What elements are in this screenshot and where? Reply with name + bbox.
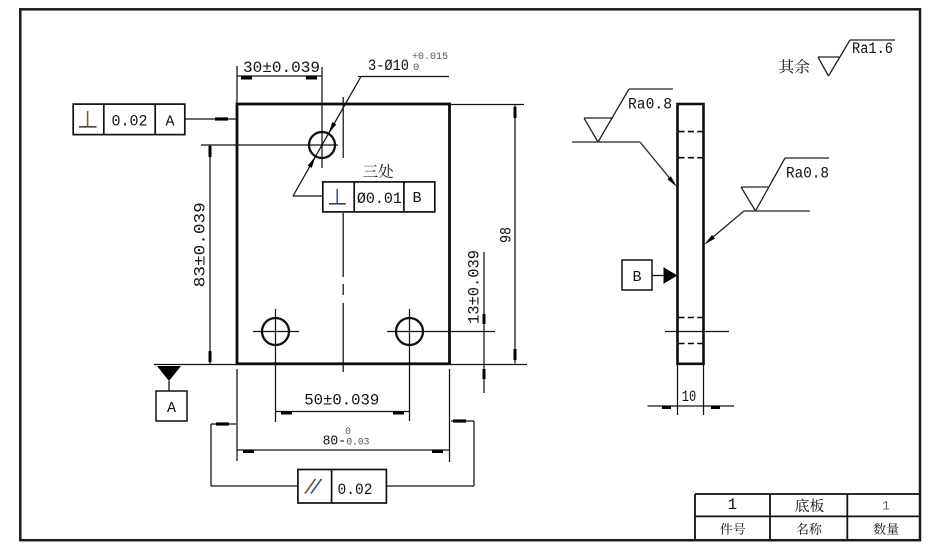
dimension 13±0.039 bbox=[483, 252, 485, 393]
svg-text:Ra0.8: Ra0.8 bbox=[628, 96, 672, 114]
bottom-left hole vertical centerline / 50-dim extension bbox=[275, 309, 277, 422]
text 其余 bbox=[779, 59, 809, 74]
parallelism leader left bbox=[211, 485, 298, 487]
front view plate outline bbox=[237, 104, 450, 364]
table cell: part name 底板 bbox=[795, 498, 824, 512]
feature control frame ⊥ Ø0.01 B bbox=[323, 182, 435, 212]
dimension 30±0.039 bbox=[236, 66, 238, 103]
dimension 80 0/-0.03 bbox=[236, 369, 238, 461]
svg-text:A: A bbox=[167, 400, 176, 417]
svg-text:3-Ø10: 3-Ø10 bbox=[368, 57, 409, 75]
hole callout 3-Ø10 +0.015/0 leader bbox=[358, 76, 449, 78]
hidden line bottom hole upper bbox=[679, 317, 703, 319]
side view outline bbox=[678, 104, 704, 364]
svg-text:10: 10 bbox=[682, 388, 697, 406]
table header 件号 bbox=[720, 523, 745, 535]
svg-text:50±0.039: 50±0.039 bbox=[304, 392, 379, 410]
leader to plate left edge bbox=[185, 118, 236, 120]
svg-text:1: 1 bbox=[727, 496, 737, 514]
surface roughness Ra0.8 (left face) bbox=[572, 89, 674, 184]
bottom-left hole horizontal centerline bbox=[253, 331, 299, 333]
parallelism leader right bbox=[386, 485, 474, 487]
parallelism symbol bbox=[305, 479, 316, 494]
svg-text:A: A bbox=[165, 113, 174, 130]
svg-text:80-: 80- bbox=[323, 435, 347, 450]
table header 数量 bbox=[874, 523, 899, 535]
title block table bbox=[695, 494, 920, 539]
bottom-right hole bbox=[396, 318, 423, 345]
text 三处 bbox=[363, 164, 393, 178]
svg-text:0.02: 0.02 bbox=[112, 112, 148, 130]
svg-text:98: 98 bbox=[498, 227, 516, 243]
top hole vertical centerline / 30-dim extension bbox=[321, 67, 323, 168]
bottom-left hole bbox=[262, 318, 289, 345]
hidden line top hole lower bbox=[679, 157, 703, 159]
bottom holes centerline through side view bbox=[665, 331, 729, 333]
svg-text:Ra0.8: Ra0.8 bbox=[786, 165, 829, 183]
table header 名称 bbox=[796, 523, 821, 535]
svg-text:0.03: 0.03 bbox=[346, 438, 369, 449]
svg-text:30±0.039: 30±0.039 bbox=[243, 59, 320, 77]
parallelism frame // 0.02 bbox=[298, 470, 387, 504]
svg-text:B: B bbox=[412, 190, 421, 207]
datum B feature triangle bbox=[652, 275, 664, 277]
svg-text:Ø0.01: Ø0.01 bbox=[357, 190, 402, 208]
svg-text:0: 0 bbox=[413, 62, 419, 74]
dimension 10 bbox=[677, 365, 679, 415]
dimension 50±0.039 bbox=[276, 411, 410, 413]
surface roughness Ra0.8 (right face) bbox=[707, 158, 829, 242]
hidden line bottom hole lower bbox=[679, 343, 703, 345]
bottom-right hole vertical centerline / 50-dim extension bbox=[409, 309, 411, 421]
svg-text:B: B bbox=[632, 269, 641, 286]
datum A box bbox=[156, 391, 187, 421]
top hole bbox=[309, 132, 335, 158]
svg-text:13±0.039: 13±0.039 bbox=[466, 250, 484, 324]
plate vertical centerline (dash-dot) bbox=[342, 97, 344, 158]
svg-text:0.02: 0.02 bbox=[338, 481, 373, 499]
dimension 83±0.039 bbox=[209, 145, 211, 364]
top hole horizontal centerline bbox=[201, 144, 338, 146]
datum A feature triangle bbox=[154, 364, 237, 366]
svg-text:0: 0 bbox=[345, 427, 351, 438]
hidden line top hole upper bbox=[679, 131, 703, 133]
dimension 98 bbox=[451, 104, 524, 106]
svg-text:1: 1 bbox=[882, 498, 890, 513]
svg-text:Ra1.6: Ra1.6 bbox=[852, 40, 893, 58]
svg-text:83±0.039: 83±0.039 bbox=[192, 202, 210, 287]
perpendicularity symbol bbox=[336, 189, 338, 204]
datum B box bbox=[622, 260, 652, 290]
feature control frame ⊥ 0.02 A bbox=[73, 104, 185, 135]
perpendicularity symbol bbox=[87, 111, 89, 127]
bottom-right hole horizontal centerline / 13-dim extension bbox=[387, 331, 495, 333]
